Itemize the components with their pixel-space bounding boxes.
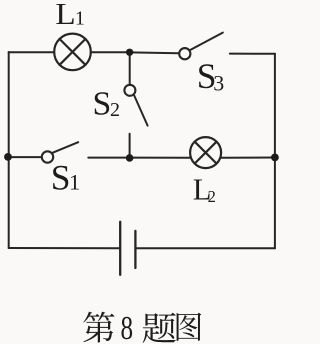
wire S2 stub to node C <box>129 134 131 158</box>
caption char 图 <box>177 313 202 341</box>
switch S3 <box>179 33 223 60</box>
node B junction dot <box>271 154 279 162</box>
caption char 题 <box>143 313 176 343</box>
wire top-left horizontal <box>9 51 55 53</box>
wire node A to S3 <box>130 51 179 54</box>
svg-text:S: S <box>51 157 71 197</box>
wire bottom-left to battery <box>9 247 121 249</box>
node A junction dot <box>126 49 133 56</box>
wire L1 to node A <box>91 51 130 53</box>
svg-text:L: L <box>55 0 75 31</box>
battery plate long (+) <box>119 222 121 275</box>
lamp L2 <box>190 137 221 168</box>
wire left vertical <box>8 52 10 248</box>
switch S1 <box>42 142 78 163</box>
switch S2 <box>124 85 147 126</box>
wire S1 to L2 across node C <box>88 157 191 159</box>
svg-text:3: 3 <box>213 70 224 95</box>
wire L2 to node B <box>221 157 275 159</box>
svg-text:2: 2 <box>110 99 120 121</box>
wire node A down to S2 <box>129 52 131 84</box>
caption char 第 <box>83 312 114 343</box>
svg-text:8: 8 <box>121 309 134 344</box>
caption char 8 <box>121 309 134 344</box>
wire right vertical <box>274 54 276 248</box>
wire S3 to top-right corner <box>230 53 275 55</box>
lamp L1 <box>54 34 91 71</box>
node C junction dot <box>126 154 134 162</box>
svg-text:1: 1 <box>69 170 80 195</box>
battery plate short (-) <box>134 231 136 268</box>
svg-text:1: 1 <box>75 8 85 30</box>
svg-text:2: 2 <box>208 187 216 206</box>
wire middle-left from node D <box>9 156 42 158</box>
node D junction dot <box>4 153 12 161</box>
wire battery to bottom-right <box>135 247 275 249</box>
svg-text:S: S <box>93 85 112 122</box>
